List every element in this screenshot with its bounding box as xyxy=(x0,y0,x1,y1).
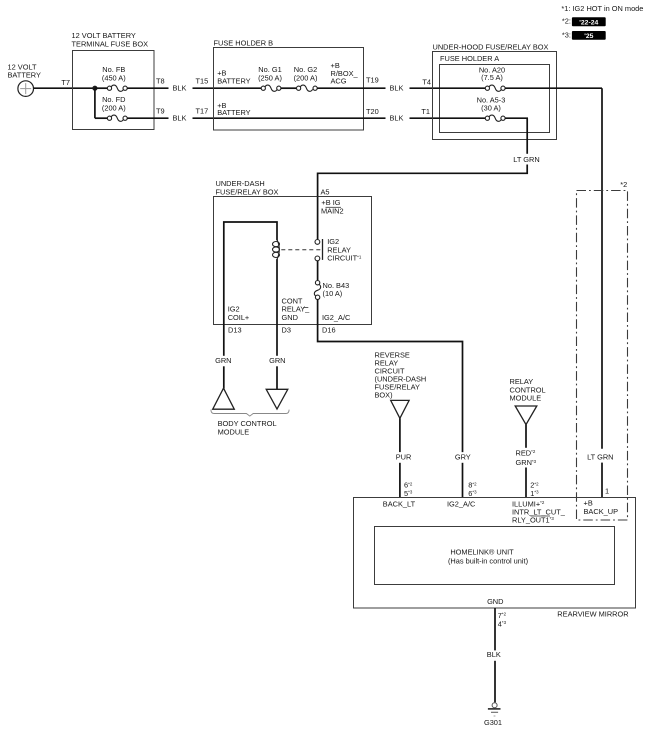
node T8, wire BLK xyxy=(156,76,214,92)
svg-text:(7.5 A): (7.5 A) xyxy=(481,73,503,82)
wire RED*2 / GRN*3 to mirror ILLUMI xyxy=(516,425,537,498)
fuse No. G2 (200 A) xyxy=(294,65,364,91)
svg-text:BLK: BLK xyxy=(173,84,187,93)
svg-text:RLY_OUT1*3: RLY_OUT1*3 xyxy=(512,515,554,524)
svg-text:REARVIEW MIRROR: REARVIEW MIRROR xyxy=(557,609,628,618)
svg-text:(Has built-in control unit): (Has built-in control unit) xyxy=(448,557,528,566)
svg-text:T1: T1 xyxy=(421,107,430,116)
svg-text:T19: T19 xyxy=(366,76,379,85)
svg-text:FUSE/RELAY BOX: FUSE/RELAY BOX xyxy=(216,188,279,197)
svg-text:4*3: 4*3 xyxy=(498,619,507,628)
pin 6*2 / 5*3 (BACK_LT) xyxy=(383,481,416,509)
wire branch down to fuse FD xyxy=(94,88,96,118)
wire battery to terminal fuse box (node T7) xyxy=(34,78,96,88)
svg-text:BLK: BLK xyxy=(390,114,404,123)
wire PUR to mirror BACK_LT xyxy=(396,418,412,498)
svg-text:T8: T8 xyxy=(156,76,165,85)
battery B1 (12 volt battery) xyxy=(8,62,41,96)
svg-text:(450 A): (450 A) xyxy=(102,73,126,82)
svg-text:T4: T4 xyxy=(422,77,431,86)
box: HOMELINK unit xyxy=(375,527,615,585)
ground G301 xyxy=(484,703,502,728)
svg-text:D13: D13 xyxy=(228,326,242,335)
box: FUSE HOLDER A xyxy=(440,54,550,133)
box: UNDER-HOOD FUSE/RELAY BOX xyxy=(433,42,557,139)
label +B R/BOX_ACG xyxy=(331,61,359,86)
bracket under triangles xyxy=(211,410,289,417)
svg-text:LT GRN: LT GRN xyxy=(587,452,613,461)
connector triangle (down) relay control module xyxy=(515,406,537,425)
wire contact to fuse B43 xyxy=(317,261,319,280)
svg-text:COIL+: COIL+ xyxy=(228,313,250,322)
svg-text:BATTERY: BATTERY xyxy=(8,70,41,79)
label CONT_RELAY_GND at pin D3 xyxy=(282,296,311,322)
connector triangle (up) at body control module xyxy=(213,388,235,409)
svg-text:*2: *2 xyxy=(620,180,627,189)
svg-text:(10 A): (10 A) xyxy=(323,289,343,298)
svg-text:GND: GND xyxy=(282,313,298,322)
svg-text:A5: A5 xyxy=(321,187,330,196)
svg-text:*3:: *3: xyxy=(562,30,571,39)
fuse No. B43 (10 A) xyxy=(314,281,349,300)
svg-text:BATTERY: BATTERY xyxy=(217,108,250,117)
svg-text:T7: T7 xyxy=(61,78,70,87)
svg-text:IG2_A/C: IG2_A/C xyxy=(447,500,476,509)
box: 12 VOLT BATTERY TERMINAL FUSE BOX xyxy=(72,31,155,129)
svg-text:GRN: GRN xyxy=(215,356,231,365)
svg-text:FUSE HOLDER B: FUSE HOLDER B xyxy=(214,39,274,48)
svg-text:1*3: 1*3 xyxy=(530,489,539,498)
pin 1 (+B BACK_UP) xyxy=(584,487,619,516)
node T9, wire BLK xyxy=(156,107,214,123)
svg-text:ACG: ACG xyxy=(331,76,347,85)
svg-text:GRN*3: GRN*3 xyxy=(516,458,537,467)
box: FUSE HOLDER B xyxy=(214,39,364,130)
svg-text:'22-24: '22-24 xyxy=(579,19,598,26)
wire BLK from GND to ground xyxy=(487,608,501,702)
svg-text:'25: '25 xyxy=(584,33,593,40)
legend note *2 badge '22-24 xyxy=(562,17,606,27)
svg-text:MODULE: MODULE xyxy=(510,394,542,403)
svg-text:T20: T20 xyxy=(366,107,379,116)
svg-text:PUR: PUR xyxy=(396,453,412,462)
svg-text:G301: G301 xyxy=(484,718,502,727)
svg-text:T17: T17 xyxy=(196,107,209,116)
node T19, wire BLK xyxy=(364,76,433,93)
svg-text:(30 A): (30 A) xyxy=(481,103,501,112)
svg-text:BACK_LT: BACK_LT xyxy=(383,500,416,509)
svg-text:FUSE HOLDER A: FUSE HOLDER A xyxy=(440,54,499,63)
box: REARVIEW MIRROR xyxy=(354,498,636,619)
connector triangle (down) at body control module xyxy=(266,389,288,409)
wire LT GRN from fuse A5-3 down to under-dash box pin A5 xyxy=(318,118,540,196)
svg-text:CIRCUIT*1: CIRCUIT*1 xyxy=(327,254,362,263)
connector triangle (down) reverse relay circuit xyxy=(391,400,409,418)
svg-text:T9: T9 xyxy=(156,107,165,116)
svg-text:TERMINAL FUSE BOX: TERMINAL FUSE BOX xyxy=(72,39,149,48)
svg-text:(200 A): (200 A) xyxy=(294,73,318,82)
svg-text:GRN: GRN xyxy=(269,356,285,365)
node A5, label +B IG_MAIN2 xyxy=(321,187,344,215)
svg-text:(250 A): (250 A) xyxy=(258,73,282,82)
svg-text:BACK_UP: BACK_UP xyxy=(584,507,619,516)
label BODY CONTROL MODULE xyxy=(218,419,277,436)
fuse No. G1 (250 A) xyxy=(258,65,296,91)
label RELAY CONTROL MODULE xyxy=(510,377,546,402)
svg-text:(200 A): (200 A) xyxy=(102,104,126,113)
wire GRN from D3 to body control module xyxy=(269,324,285,389)
svg-text:HOMELINK® UNIT: HOMELINK® UNIT xyxy=(450,547,514,556)
wire A5 down to relay contact xyxy=(317,196,319,239)
relay coil (bold branch D13 - coil - D3) xyxy=(224,222,280,324)
wire D16 (bold) over and down to mirror IG2_A/C xyxy=(318,324,471,498)
pin 8*2 / 6*3 (IG2_A/C) xyxy=(447,481,477,509)
wire GRN from D13 to body control module xyxy=(215,324,231,388)
svg-text:BLK: BLK xyxy=(487,650,501,659)
dash-dot option box *2 xyxy=(577,180,628,520)
svg-text:*2:: *2: xyxy=(562,17,571,26)
wire from fuse A20 right and down to rearview mirror +B BACK_UP xyxy=(601,88,603,498)
svg-text:BOX): BOX) xyxy=(375,390,393,399)
svg-text:BATTERY: BATTERY xyxy=(217,76,250,85)
node T20, wire BLK xyxy=(364,107,433,123)
svg-text:5*3: 5*3 xyxy=(404,489,413,498)
legend note *3 badge '25 xyxy=(562,30,606,40)
pin 2*2 / 1*3 (ILLUMI / INTR_LT_CUT / RLY_OUT1) xyxy=(512,481,566,525)
box: UNDER-DASH FUSE/RELAY BOX xyxy=(214,179,372,324)
wire fuse B43 to pin D16 xyxy=(317,299,319,324)
label IG2 COIL+ at pin D13 xyxy=(228,305,250,322)
junction at battery terminal fuse box xyxy=(92,86,97,91)
svg-text:GND: GND xyxy=(487,597,503,606)
svg-text:6*3: 6*3 xyxy=(468,489,477,498)
svg-text:IG2_A/C: IG2_A/C xyxy=(322,313,351,322)
label REVERSE RELAY CIRCUIT (UNDER-DASH FUSE/RELAY BOX) xyxy=(375,350,427,399)
svg-text:D16: D16 xyxy=(322,326,336,335)
svg-text:*1: IG2 HOT in ON mode: *1: IG2 HOT in ON mode xyxy=(561,4,643,13)
svg-text:RED*2: RED*2 xyxy=(516,448,536,457)
svg-text:BLK: BLK xyxy=(390,84,404,93)
svg-text:D3: D3 xyxy=(282,326,291,335)
svg-text:1: 1 xyxy=(605,487,609,496)
label +B BATTERY (row 1) xyxy=(214,68,261,88)
fuse No. FB (450 A) xyxy=(95,65,169,91)
fuse No. A5-3 (30 A) xyxy=(433,96,528,122)
svg-text:GRY: GRY xyxy=(455,453,471,462)
svg-text:T15: T15 xyxy=(196,76,209,85)
fuse No. A20 (7.5 A) xyxy=(433,66,602,92)
fuse No. FD (200 A) xyxy=(95,95,169,121)
svg-text:LT GRN: LT GRN xyxy=(513,155,539,164)
pin GND of rearview mirror xyxy=(487,597,507,628)
dashed relay actuation line xyxy=(281,249,322,251)
label +B BATTERY (row 2) xyxy=(214,101,364,118)
svg-text:BLK: BLK xyxy=(173,114,187,123)
svg-text:MODULE: MODULE xyxy=(218,428,250,437)
svg-text:UNDER-HOOD FUSE/RELAY BOX: UNDER-HOOD FUSE/RELAY BOX xyxy=(433,42,549,51)
relay IG2 contact and circuit label xyxy=(315,237,362,262)
